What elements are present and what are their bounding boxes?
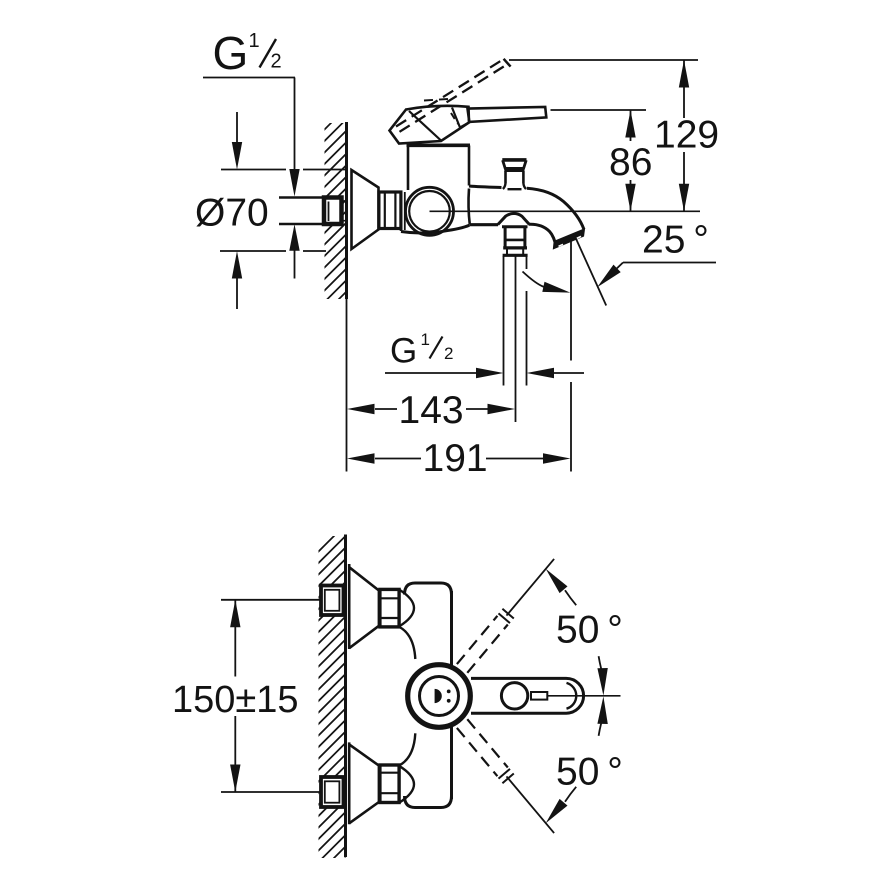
- arrow at pipe bottom G half: [289, 224, 299, 251]
- upper 50 degree boundary line: [507, 559, 555, 616]
- lever screw circle: [501, 683, 527, 709]
- escutcheon cone (side view): [352, 170, 379, 249]
- lever handle (front view): [471, 678, 584, 713]
- dimension 86: [625, 110, 635, 138]
- lever centerline: [548, 695, 621, 697]
- extension line handle tip: [551, 109, 647, 111]
- body spout seam: [469, 189, 470, 225]
- body vertical cylinder: [407, 146, 410, 191]
- cartridge cap inner circle: [420, 677, 459, 716]
- svg-text:25 °: 25 °: [642, 219, 709, 262]
- dome hidden dashes: [424, 99, 448, 101]
- wall (side view): [345, 122, 348, 299]
- diverter knob cap: [502, 158, 526, 162]
- lower 50 degree arc pieces: [565, 787, 576, 802]
- lever handle dome: [390, 106, 470, 144]
- dimension 150 plus minus 15: [230, 600, 240, 628]
- lever slot: [531, 692, 547, 700]
- vertical reference line at spout outlet: [570, 241, 572, 361]
- diverter knob neck: [504, 171, 507, 184]
- wall hatching (front view): [316, 523, 347, 888]
- pointer lines G half middle: [385, 372, 476, 374]
- union hex nut (side view): [379, 192, 401, 229]
- extension line bottom of escutcheon: [220, 250, 286, 252]
- svg-text:191: 191: [423, 437, 488, 480]
- extension line handle raised tip: [509, 59, 698, 61]
- spout outlet lip: [554, 229, 585, 248]
- supply pipe in wall: [279, 196, 324, 198]
- svg-text:2: 2: [444, 344, 453, 363]
- dome facet lines: [409, 111, 441, 141]
- body bottom edge: [401, 225, 469, 233]
- lower escutcheon cone (front view): [348, 742, 351, 824]
- lever handle raised position (dashed): [396, 60, 503, 127]
- spout top contour: [469, 186, 502, 188]
- lever cap inner line: [567, 683, 577, 709]
- lower dashed lever position: [457, 728, 498, 776]
- shower connector roof: [498, 213, 529, 224]
- 25 degree arc with arrow: [523, 272, 544, 287]
- extension line lower union: [221, 791, 321, 793]
- dimension 129: [679, 60, 689, 88]
- svg-text:Ø70: Ø70: [195, 192, 269, 235]
- extension line upper union: [221, 599, 321, 601]
- centerline through body: [430, 210, 701, 212]
- upper union hex nut (front view): [380, 589, 399, 627]
- lower 50 degree arrow at centerline: [597, 696, 607, 724]
- body flange plate: [400, 191, 403, 232]
- svg-text:86: 86: [609, 141, 652, 184]
- lower wall square fitting: [321, 777, 344, 807]
- marking dots: [447, 690, 451, 694]
- extension line top of escutcheon: [221, 169, 286, 171]
- cartridge cap outer circle: [408, 665, 471, 728]
- leader line G half top left: [203, 77, 295, 79]
- wall extension line: [346, 299, 348, 472]
- lower union hex nut (front view): [380, 765, 399, 803]
- 25 degree slanted reference line: [575, 237, 606, 306]
- upper 50 degree arrow at centerline: [597, 668, 607, 696]
- arrow below: [236, 276, 238, 309]
- logo half disc: [435, 689, 442, 703]
- svg-text:1: 1: [249, 30, 260, 52]
- spout bottom shelf: [470, 223, 499, 226]
- shower outlet extension lines: [503, 256, 505, 386]
- svg-text:G: G: [390, 332, 417, 371]
- lower 50 degree arrow on boundary: [546, 799, 568, 823]
- cartridge circle (side view): [406, 187, 454, 235]
- mixer body (front view): [405, 583, 452, 595]
- diverter knob feet: [503, 184, 506, 190]
- upper 50 degree arc pieces: [565, 590, 576, 605]
- upper dashed lever position: [457, 616, 498, 664]
- lever handle (horizontal position): [468, 107, 547, 122]
- shower connector body: [502, 225, 528, 228]
- upper wall square fitting: [321, 586, 344, 616]
- lower 50 degree boundary line: [507, 776, 555, 833]
- arrow above: [236, 112, 238, 145]
- svg-text:2: 2: [271, 51, 282, 73]
- raised handle end cap: [504, 59, 511, 67]
- dimension 143: [347, 404, 375, 414]
- svg-text:129: 129: [654, 114, 719, 157]
- svg-text:50 °: 50 °: [556, 609, 623, 652]
- svg-text:143: 143: [399, 389, 464, 432]
- svg-text:150±15: 150±15: [172, 679, 299, 721]
- dimension 191: [347, 453, 375, 463]
- upper boss arc: [399, 590, 414, 627]
- wall connection square fitting: [324, 198, 342, 225]
- svg-text:50 °: 50 °: [556, 751, 623, 794]
- upper 50 degree arrow on boundary: [546, 569, 568, 593]
- spout bottom contour right: [529, 224, 556, 245]
- wall (front view): [344, 535, 347, 858]
- svg-text:G: G: [213, 27, 249, 79]
- body shoulder curves: [400, 627, 416, 659]
- lower boss arc: [399, 766, 414, 803]
- svg-text:1: 1: [421, 330, 430, 349]
- upper escutcheon cone (front view): [348, 564, 351, 649]
- wall hatching (side view): [322, 106, 348, 316]
